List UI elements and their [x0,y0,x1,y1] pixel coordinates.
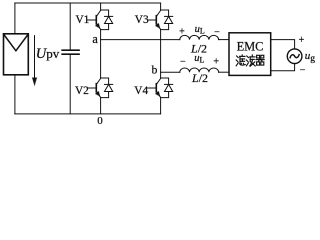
diode: antiparallel of V1 [101,10,113,30]
svg-text:ug: ug [305,50,316,64]
svg-text:Upv: Upv [36,46,60,62]
svg-text:V4: V4 [134,85,148,97]
svg-text:uL: uL [195,24,205,36]
transistor V2 (IGBT) [88,78,101,97]
svg-text:V3: V3 [135,14,149,26]
EMC filter box [229,33,271,76]
glyph 滤 [236,55,245,66]
label: Upv with reference arrow [32,36,60,86]
svg-text:−: − [214,27,220,38]
svg-text:b: b [152,64,158,76]
wire: node b to bottom inductor [161,71,180,73]
svg-text:−: − [180,57,186,68]
wire: right leg rail middle (node b tap) [160,30,162,78]
svg-text:EMC: EMC [237,39,264,53]
wire: right leg rail lower [160,98,162,114]
glyph 波 [246,55,255,66]
wire: top bus down to PV positive terminal [14,3,16,34]
AC source ug (grid) [287,49,302,64]
wire: PV negative terminal to bottom bus [14,75,16,114]
svg-text:uL: uL [194,53,204,65]
svg-text:+: + [213,57,219,68]
diode: antiparallel of V4 [161,78,173,98]
label: 滤波器 (filter) drawn glyphs [236,55,264,66]
photovoltaic panel PV [4,34,29,75]
transistor V1 (IGBT) [88,10,101,29]
wire: EMC filter to grid source (top) [271,40,295,49]
svg-text:+: + [299,35,305,46]
wire: bottom DC bus (node 0 rail) [15,113,161,115]
inductor L/2 bottom [180,68,219,72]
wire: grid source to EMC filter (bottom) [271,64,295,71]
wire: bottom inductor to EMC filter [219,71,229,73]
wire: left leg rail upper [100,3,102,10]
wire: top DC bus [15,2,161,4]
capacitor C (DC link) [62,3,79,114]
diode: antiparallel of V2 [101,78,113,98]
svg-text:V2: V2 [75,85,89,97]
inductor L/2 top [180,35,219,39]
svg-text:−: − [300,65,306,76]
svg-text:+: + [179,27,185,38]
svg-text:V1: V1 [76,14,90,26]
diode: antiparallel of V3 [161,10,173,30]
wire: left leg rail lower [100,98,102,114]
wire: right leg rail upper [160,3,162,10]
glyph 器 [256,55,264,65]
wire: left leg rail middle (node a tap) [100,30,102,78]
svg-text:L/2: L/2 [191,71,208,85]
svg-text:0: 0 [97,115,103,127]
transistor V3 (IGBT) [148,10,161,29]
svg-text:a: a [92,32,98,46]
transistor V4 (IGBT) [148,78,161,97]
wire: node a to top inductor (crosses right leg) [101,39,180,41]
wire: top inductor to EMC filter [219,39,229,41]
